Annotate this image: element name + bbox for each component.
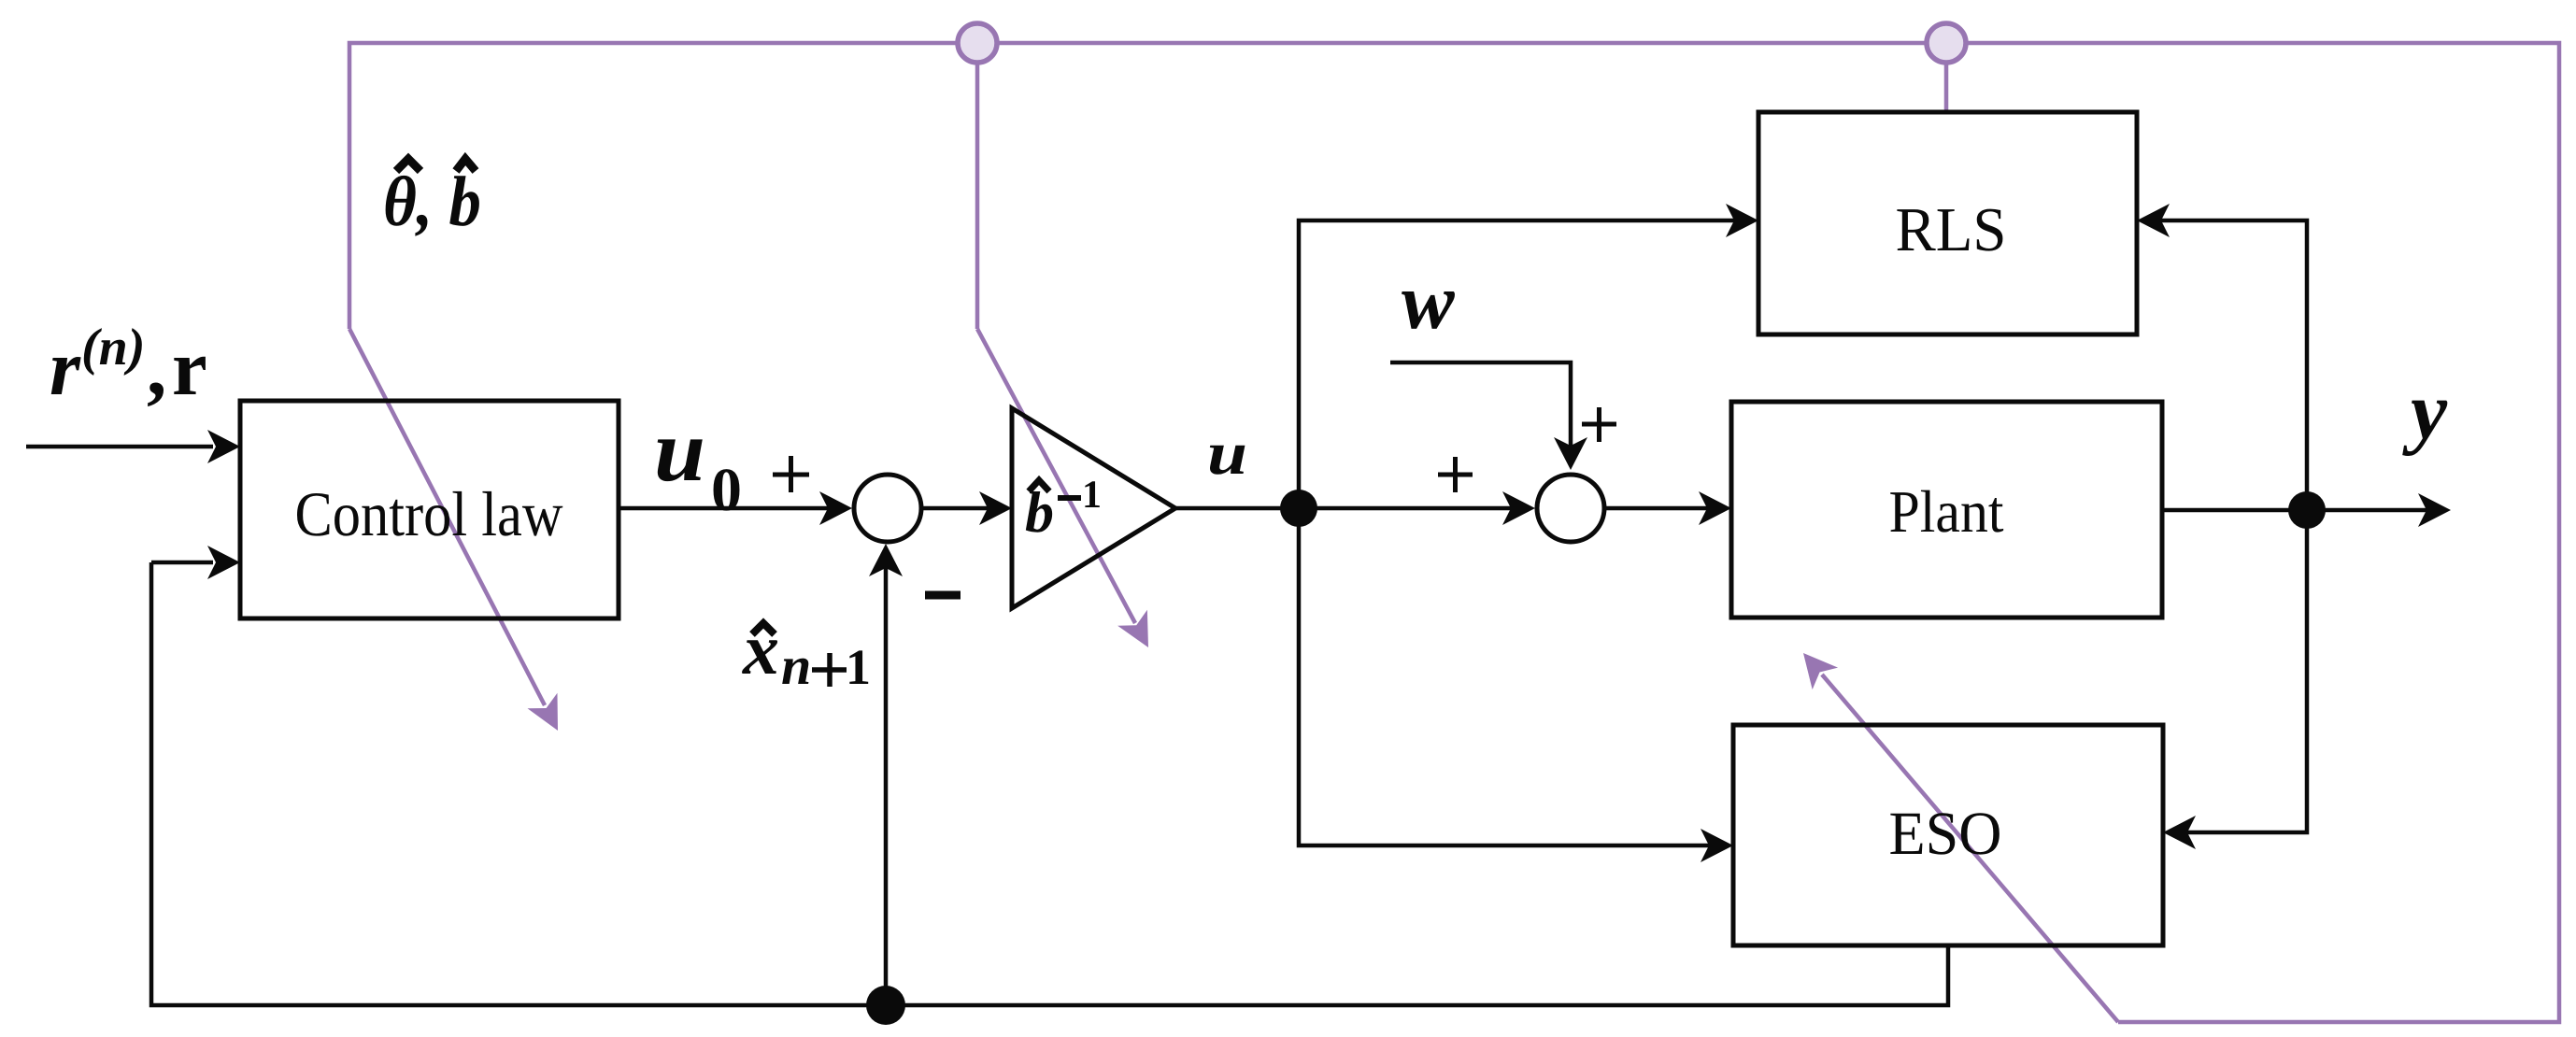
wire: purple diagonal arrow into Plant (from bottom-right bus)	[1822, 675, 2118, 1022]
wire: reference input arrow	[26, 445, 213, 449]
wire: purple diagonal into Control law	[349, 329, 545, 705]
svg-text:(n): (n)	[81, 319, 145, 376]
svg-text:n: n	[781, 635, 811, 696]
svg-text:r: r	[172, 324, 207, 412]
node: y branch node	[2288, 491, 2326, 529]
svg-text:RLS: RLS	[1896, 195, 2007, 264]
svg-text:r: r	[50, 324, 81, 412]
wire: feedback into Control law lower input	[151, 561, 213, 565]
svg-text:,: ,	[147, 324, 166, 412]
label: minus sign	[925, 591, 961, 600]
svg-text:θ, b: θ, b	[383, 163, 481, 241]
wire: summing junction 2 to Plant	[1604, 506, 1707, 511]
block: RLS	[1758, 112, 2137, 334]
svg-text:0: 0	[711, 456, 742, 524]
svg-text:Plant: Plant	[1889, 478, 2004, 545]
wire: Plant output y	[2162, 508, 2427, 513]
wire: u branch down to ESO	[1299, 508, 1709, 845]
svg-text:1: 1	[1082, 474, 1102, 517]
node: purple junction above b^-1	[958, 23, 997, 63]
svg-text:ESO: ESO	[1889, 800, 2002, 868]
block: ESO	[1733, 725, 2163, 945]
wire: u0 into summing junction	[619, 506, 828, 511]
wire: w into summing junction 2	[1390, 362, 1571, 448]
label: plus sign at summing junction 1	[773, 473, 809, 477]
wire: gain output to summing junction 2	[1175, 506, 1511, 511]
wire: purple stub into RLS top	[1944, 60, 1949, 112]
svg-text:y: y	[2402, 366, 2448, 457]
svg-text:1: 1	[846, 639, 871, 695]
node: summing junction 1	[854, 475, 921, 542]
svg-text:w: w	[1402, 258, 1455, 346]
node: u branch node	[1280, 490, 1317, 527]
gain: b^-1 triangle	[1012, 408, 1175, 608]
svg-text:Control law: Control law	[295, 478, 563, 549]
wire: y branch up to RLS right input	[2161, 220, 2307, 510]
svg-text:x: x	[742, 608, 779, 689]
wire: y branch down to ESO right input	[2187, 510, 2307, 832]
node: summing junction 2	[1537, 475, 1604, 542]
node: feedback branch node	[866, 986, 905, 1025]
block: Plant	[1731, 402, 2162, 618]
block: Control law	[240, 401, 619, 618]
wire: summing junction 1 to gain	[923, 506, 988, 511]
wire: purple drop and diagonal into b^-1 gain	[975, 60, 980, 329]
label: plus sign before summing junction 2	[1438, 473, 1473, 477]
wire: ESO output feedback to Control law and summing junction 1	[151, 562, 1948, 1005]
label: plus sign at w arrow	[1582, 422, 1616, 427]
node: purple junction above RLS	[1927, 23, 1966, 63]
svg-text:u: u	[1207, 419, 1247, 488]
wire: x-hat estimate up into summing junction 1	[884, 568, 889, 1005]
wire: u branch up to RLS	[1299, 220, 1734, 508]
svg-text:u: u	[654, 401, 705, 500]
